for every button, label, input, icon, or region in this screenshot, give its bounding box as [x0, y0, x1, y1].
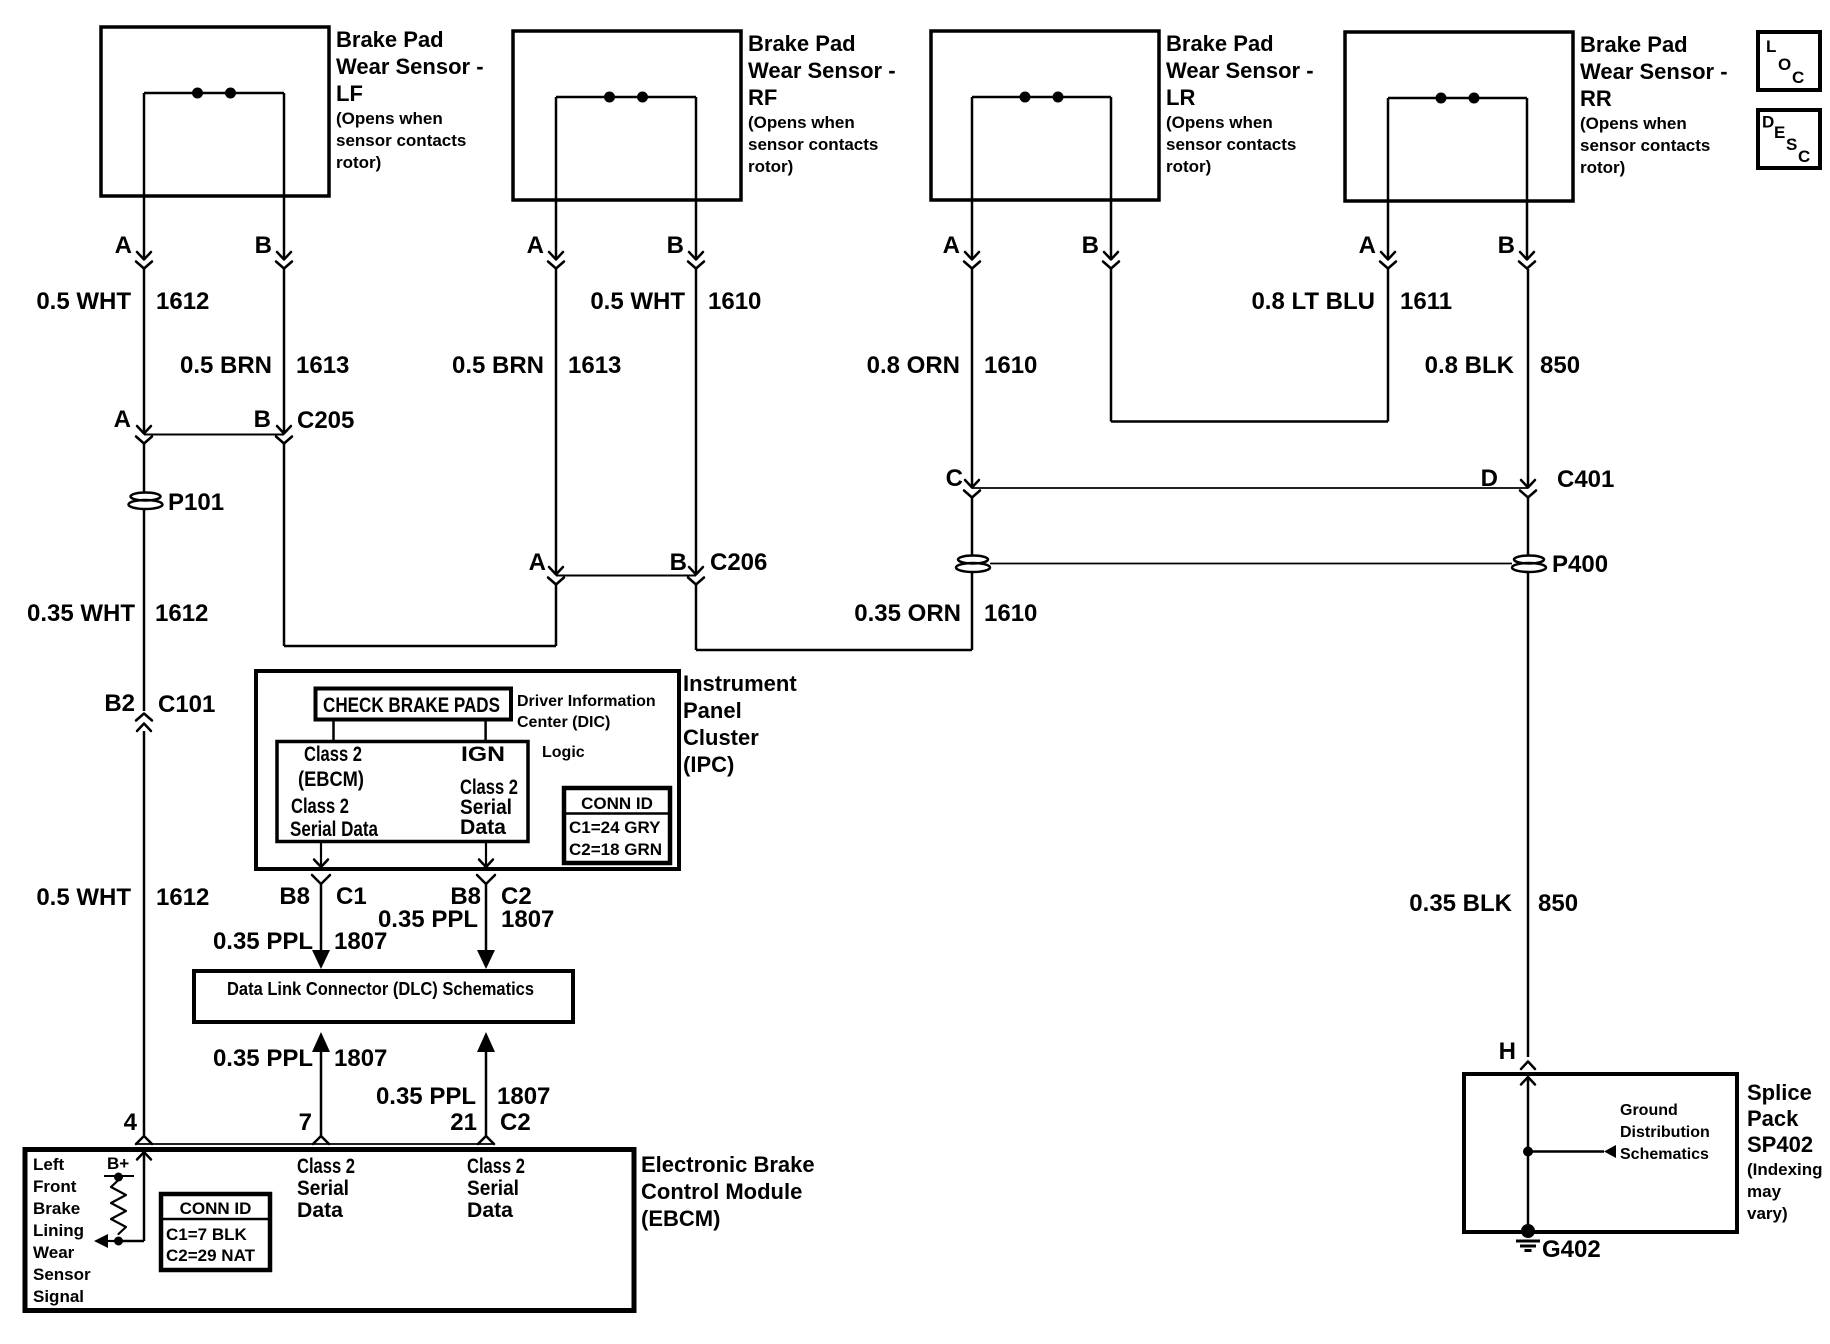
- svg-text:G402: G402: [1542, 1236, 1601, 1263]
- svg-text:L: L: [1766, 37, 1776, 56]
- svg-text:C401: C401: [1557, 466, 1614, 493]
- svg-text:(EBCM): (EBCM): [641, 1206, 720, 1231]
- svg-text:0.35 PPL: 0.35 PPL: [213, 928, 313, 955]
- svg-text:0.35 WHT: 0.35 WHT: [27, 600, 135, 627]
- svg-text:Left: Left: [33, 1155, 65, 1174]
- svg-text:CONN ID: CONN ID: [180, 1199, 252, 1218]
- svg-text:LR: LR: [1166, 85, 1195, 110]
- svg-text:1613: 1613: [296, 352, 349, 379]
- svg-text:C206: C206: [710, 549, 767, 576]
- svg-text:C: C: [1792, 68, 1804, 87]
- svg-text:(Opens when: (Opens when: [1580, 114, 1687, 133]
- svg-text:O: O: [1778, 55, 1791, 74]
- svg-text:Class 2: Class 2: [304, 743, 362, 766]
- svg-text:C1=7 BLK: C1=7 BLK: [166, 1225, 247, 1244]
- svg-text:Wear Sensor -: Wear Sensor -: [336, 54, 484, 79]
- svg-text:B: B: [1498, 232, 1515, 259]
- svg-text:B+: B+: [107, 1154, 129, 1173]
- svg-text:Serial Data: Serial Data: [290, 818, 378, 841]
- svg-text:B: B: [670, 549, 687, 576]
- svg-text:C2: C2: [500, 1109, 531, 1136]
- svg-text:rotor): rotor): [1166, 157, 1211, 176]
- svg-text:0.35 PPL: 0.35 PPL: [378, 906, 478, 933]
- svg-text:Driver Information: Driver Information: [517, 693, 656, 710]
- svg-text:sensor contacts: sensor contacts: [1580, 136, 1710, 155]
- svg-text:Brake Pad: Brake Pad: [748, 31, 856, 56]
- svg-text:Ground: Ground: [1620, 1102, 1678, 1119]
- svg-text:Cluster: Cluster: [683, 725, 759, 750]
- svg-text:0.8 LT BLU: 0.8 LT BLU: [1251, 288, 1375, 315]
- svg-text:(IPC): (IPC): [683, 752, 734, 777]
- svg-text:Wear Sensor -: Wear Sensor -: [1580, 59, 1728, 84]
- svg-text:P101: P101: [168, 489, 224, 516]
- svg-text:Signal: Signal: [33, 1287, 84, 1306]
- svg-text:rotor): rotor): [1580, 158, 1625, 177]
- svg-text:0.35 PPL: 0.35 PPL: [376, 1083, 476, 1110]
- svg-text:rotor): rotor): [748, 157, 793, 176]
- svg-text:0.5 WHT: 0.5 WHT: [36, 288, 131, 315]
- svg-text:A: A: [114, 406, 131, 433]
- svg-text:0.35 PPL: 0.35 PPL: [213, 1045, 313, 1072]
- svg-text:Schematics: Schematics: [1620, 1146, 1709, 1163]
- svg-text:(EBCM): (EBCM): [298, 768, 364, 791]
- svg-text:Serial: Serial: [467, 1177, 519, 1200]
- svg-text:C: C: [1798, 147, 1810, 166]
- svg-text:P400: P400: [1552, 551, 1608, 578]
- svg-text:0.8 ORN: 0.8 ORN: [867, 352, 960, 379]
- svg-text:C2=29 NAT: C2=29 NAT: [166, 1246, 256, 1265]
- svg-text:Distribution: Distribution: [1620, 1124, 1710, 1141]
- svg-text:0.5 BRN: 0.5 BRN: [452, 352, 544, 379]
- svg-text:1807: 1807: [334, 928, 387, 955]
- svg-text:Serial: Serial: [297, 1177, 349, 1200]
- svg-text:0.5 WHT: 0.5 WHT: [590, 288, 685, 315]
- svg-text:1612: 1612: [155, 600, 208, 627]
- svg-text:SP402: SP402: [1747, 1132, 1813, 1157]
- svg-text:Splice: Splice: [1747, 1080, 1812, 1105]
- svg-text:21: 21: [450, 1109, 477, 1136]
- svg-text:H: H: [1499, 1038, 1516, 1065]
- svg-text:B2: B2: [104, 690, 135, 717]
- svg-text:(Opens when: (Opens when: [336, 109, 443, 128]
- svg-text:B: B: [1082, 232, 1099, 259]
- svg-text:E: E: [1774, 123, 1785, 142]
- svg-text:Sensor: Sensor: [33, 1265, 91, 1284]
- svg-text:C205: C205: [297, 407, 354, 434]
- svg-text:0.5 BRN: 0.5 BRN: [180, 352, 272, 379]
- svg-text:CONN ID: CONN ID: [581, 794, 653, 813]
- svg-text:C101: C101: [158, 691, 215, 718]
- svg-text:LF: LF: [336, 81, 363, 106]
- svg-text:Data: Data: [297, 1199, 343, 1222]
- svg-text:(Indexing: (Indexing: [1747, 1160, 1823, 1179]
- svg-text:Brake Pad: Brake Pad: [1166, 31, 1274, 56]
- svg-text:Brake Pad: Brake Pad: [1580, 32, 1688, 57]
- svg-text:0.5 WHT: 0.5 WHT: [36, 884, 131, 911]
- svg-text:Class 2: Class 2: [291, 795, 349, 818]
- svg-text:B: B: [667, 232, 684, 259]
- svg-text:vary): vary): [1747, 1204, 1788, 1223]
- svg-text:sensor contacts: sensor contacts: [336, 131, 466, 150]
- svg-text:Electronic Brake: Electronic Brake: [641, 1152, 815, 1177]
- svg-text:0.35 ORN: 0.35 ORN: [854, 600, 961, 627]
- svg-text:4: 4: [124, 1109, 138, 1136]
- svg-text:1613: 1613: [568, 352, 621, 379]
- svg-text:A: A: [943, 232, 960, 259]
- svg-text:(Opens when: (Opens when: [748, 113, 855, 132]
- svg-text:850: 850: [1538, 890, 1578, 917]
- svg-text:C: C: [946, 465, 963, 492]
- svg-text:0.35 BLK: 0.35 BLK: [1409, 890, 1512, 917]
- svg-text:Instrument: Instrument: [683, 671, 797, 696]
- svg-text:Wear Sensor -: Wear Sensor -: [1166, 58, 1314, 83]
- svg-text:7: 7: [299, 1109, 312, 1136]
- svg-text:1610: 1610: [708, 288, 761, 315]
- svg-text:1612: 1612: [156, 884, 209, 911]
- svg-text:may: may: [1747, 1182, 1782, 1201]
- svg-text:Wear: Wear: [33, 1243, 75, 1262]
- svg-text:Data: Data: [467, 1199, 513, 1222]
- svg-text:sensor contacts: sensor contacts: [748, 135, 878, 154]
- svg-text:Data Link Connector (DLC) Sche: Data Link Connector (DLC) Schematics: [227, 979, 534, 999]
- svg-text:1612: 1612: [156, 288, 209, 315]
- svg-text:Front: Front: [33, 1177, 77, 1196]
- svg-text:rotor): rotor): [336, 153, 381, 172]
- svg-text:RR: RR: [1580, 86, 1612, 111]
- svg-text:1807: 1807: [334, 1045, 387, 1072]
- svg-text:B: B: [254, 406, 271, 433]
- svg-text:B8: B8: [279, 883, 310, 910]
- svg-text:D: D: [1481, 465, 1498, 492]
- svg-text:D: D: [1762, 113, 1774, 132]
- svg-text:Brake Pad: Brake Pad: [336, 27, 444, 52]
- svg-text:1610: 1610: [984, 600, 1037, 627]
- svg-text:sensor contacts: sensor contacts: [1166, 135, 1296, 154]
- svg-text:1611: 1611: [1400, 288, 1452, 315]
- svg-text:RF: RF: [748, 85, 777, 110]
- svg-text:Data: Data: [460, 816, 506, 839]
- svg-text:A: A: [529, 549, 546, 576]
- svg-text:C1: C1: [336, 883, 367, 910]
- svg-text:Logic: Logic: [542, 744, 585, 761]
- svg-text:IGN: IGN: [461, 743, 505, 766]
- svg-text:C1=24 GRY: C1=24 GRY: [569, 818, 661, 837]
- svg-text:Pack: Pack: [1747, 1106, 1799, 1131]
- svg-text:1610: 1610: [984, 352, 1037, 379]
- svg-text:1807: 1807: [497, 1083, 550, 1110]
- svg-text:A: A: [527, 232, 544, 259]
- svg-text:Class 2: Class 2: [467, 1155, 525, 1178]
- svg-text:CHECK BRAKE PADS: CHECK BRAKE PADS: [323, 694, 500, 717]
- svg-text:A: A: [115, 232, 132, 259]
- svg-text:S: S: [1786, 135, 1797, 154]
- svg-text:0.8 BLK: 0.8 BLK: [1425, 352, 1515, 379]
- svg-text:Class 2: Class 2: [297, 1155, 355, 1178]
- svg-text:C2=18 GRN: C2=18 GRN: [569, 840, 662, 859]
- svg-text:Brake: Brake: [33, 1199, 80, 1218]
- svg-text:850: 850: [1540, 352, 1580, 379]
- svg-text:Control Module: Control Module: [641, 1179, 802, 1204]
- svg-text:Lining: Lining: [33, 1221, 84, 1240]
- svg-text:Wear Sensor -: Wear Sensor -: [748, 58, 896, 83]
- svg-text:1807: 1807: [501, 906, 554, 933]
- svg-text:Center (DIC): Center (DIC): [517, 714, 610, 731]
- svg-text:Panel: Panel: [683, 698, 742, 723]
- svg-text:(Opens when: (Opens when: [1166, 113, 1273, 132]
- svg-text:B: B: [255, 232, 272, 259]
- svg-text:A: A: [1359, 232, 1376, 259]
